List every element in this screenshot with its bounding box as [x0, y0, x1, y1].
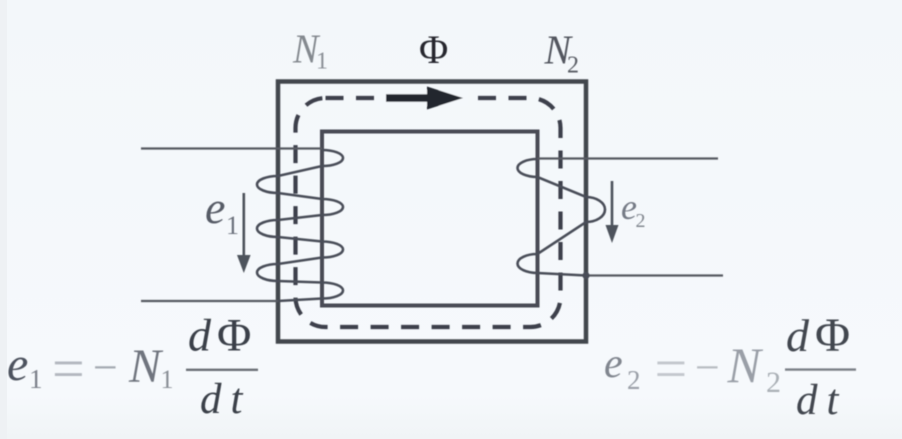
winding N1 (left coil)	[257, 150, 343, 301]
svg-text:2: 2	[636, 210, 646, 232]
svg-text:d: d	[786, 310, 810, 361]
svg-text:=: =	[52, 336, 85, 401]
arrow e2 (induced emf direction, right)	[611, 181, 614, 227]
cover under flux arrow	[376, 90, 468, 106]
svg-text:dt: dt	[200, 376, 251, 423]
svg-text:−: −	[695, 343, 720, 392]
svg-text:1: 1	[29, 364, 43, 394]
flux path (dashed loop)	[296, 98, 561, 327]
svg-text:d: d	[188, 310, 212, 361]
svg-text:e: e	[604, 341, 623, 387]
svg-text:Φ: Φ	[217, 310, 251, 362]
svg-text:=: =	[655, 336, 688, 401]
flux direction arrow	[386, 94, 432, 102]
svg-text:1: 1	[316, 49, 328, 75]
svg-text:N: N	[727, 337, 764, 393]
svg-text:2: 2	[567, 53, 579, 79]
equation e1 = -N1 dΦ/dt	[7, 310, 258, 424]
svg-text:e: e	[7, 338, 28, 391]
svg-text:e: e	[205, 182, 225, 233]
winding N2 (right coil)	[518, 159, 606, 276]
wire: secondary bottom lead	[586, 274, 723, 276]
wire: primary top lead	[141, 147, 322, 149]
svg-text:Φ: Φ	[419, 27, 448, 72]
wire: secondary top lead	[538, 157, 719, 159]
wire: primary bottom lead	[141, 300, 279, 302]
svg-text:dt: dt	[796, 377, 847, 424]
equation e2 = -N2 dΦ/dt	[604, 309, 856, 424]
svg-text:−: −	[93, 343, 118, 392]
core outer rectangle	[278, 82, 586, 342]
core inner rectangle (window)	[322, 132, 538, 306]
svg-text:1: 1	[226, 211, 239, 240]
arrow e1 (induced emf direction, left)	[243, 193, 246, 257]
junction dot on secondary bottom lead	[582, 272, 589, 279]
svg-text:2: 2	[766, 366, 781, 399]
svg-text:2: 2	[627, 365, 641, 395]
svg-text:N: N	[128, 340, 164, 393]
svg-text:Φ: Φ	[815, 309, 850, 362]
svg-text:1: 1	[161, 365, 174, 394]
